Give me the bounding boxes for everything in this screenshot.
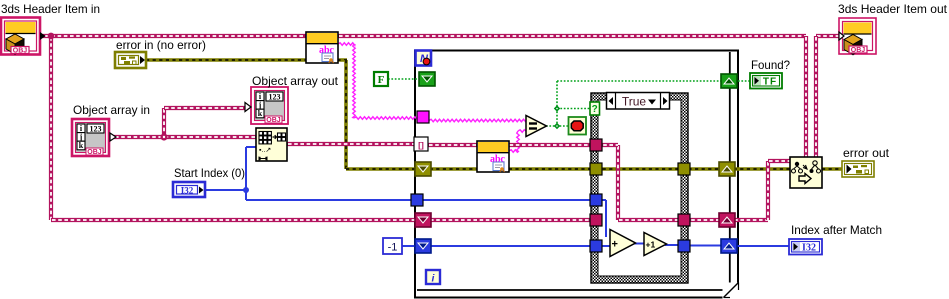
wire: boolean equal output: [546, 125, 569, 127]
svg-text:error out: error out: [843, 146, 890, 160]
3ds Header Item in terminal: [1, 18, 46, 55]
wire: class row inside loop bottom: [429, 218, 596, 222]
case tunnel blue left2: [590, 240, 602, 252]
svg-text:OBJ: OBJ: [13, 48, 28, 55]
case tunnel blue left1: [590, 194, 602, 206]
loop conditional stop terminal: [569, 117, 587, 135]
Object array out terminal: [245, 87, 288, 124]
svg-text:123: 123: [269, 93, 281, 102]
svg-text:Index after Match: Index after Match: [791, 223, 882, 237]
svg-text:error in (no error): error in (no error): [116, 38, 206, 52]
wire: start index: [205, 189, 247, 191]
wire: blue inside loop: [423, 199, 596, 201]
-1 constant: [383, 238, 402, 254]
wire: string from inner abc to equal: [509, 150, 519, 153]
F constant: [374, 72, 388, 86]
svg-text:TF: TF: [763, 77, 777, 88]
case selector terminal: [590, 102, 600, 115]
get class name node U2: [477, 141, 509, 172]
3ds Header Item out terminal: [839, 18, 876, 55]
shift register error left: [415, 162, 431, 176]
svg-text:OBJ: OBJ: [87, 149, 102, 156]
svg-text:OBJ: OBJ: [266, 117, 281, 124]
wire: index after match: [685, 245, 730, 247]
case tunnel class left2: [590, 214, 602, 226]
svg-text:▪..↗: ▪..↗: [259, 147, 271, 154]
Start Index control: [173, 182, 205, 197]
svg-text:+1: +1: [646, 240, 656, 250]
shift register blue left: [415, 239, 431, 253]
wire: array subset out to loop: [287, 142, 418, 146]
svg-text:Object array out: Object array out: [252, 74, 339, 88]
error in terminal: [115, 52, 146, 68]
case tunnel class top-left: [590, 139, 602, 151]
case tunnel blue right: [678, 240, 690, 252]
case structure: [591, 93, 688, 284]
get class name node U1: [306, 32, 338, 63]
Found? indicator: [750, 73, 782, 89]
shift register blue right: [721, 239, 737, 253]
svg-text:I32: I32: [181, 186, 194, 196]
wire: error right of loop: [727, 167, 806, 171]
wire: blue inside case: [605, 200, 607, 237]
shift register boolean left: [419, 72, 435, 86]
wire: string inside loop: [429, 119, 526, 122]
wire: string from class name node: [338, 43, 355, 46]
N count terminal: [416, 51, 432, 66]
svg-text:Start Index (0): Start Index (0): [174, 166, 245, 180]
svg-text:True: True: [622, 95, 647, 109]
svg-text:k: k: [79, 141, 84, 150]
case tunnel class right: [678, 214, 690, 226]
wire: class left drop: [49, 36, 53, 220]
wire: class inside case: [616, 145, 620, 220]
shift register class left: [415, 213, 431, 227]
iteration terminal: [426, 270, 440, 285]
wire: -1 to shift register: [402, 245, 418, 247]
svg-text:123: 123: [90, 125, 102, 134]
equal? node: [526, 116, 547, 137]
svg-text:-1: -1: [388, 242, 398, 254]
blue tunnel loop left: [411, 194, 423, 206]
case tunnel error right: [678, 163, 690, 175]
svg-text:Found?: Found?: [751, 58, 790, 72]
shift register class right: [719, 213, 735, 227]
svg-text:3ds Header Item in: 3ds Header Item in: [1, 2, 100, 16]
svg-text:OBJ: OBJ: [851, 47, 866, 54]
shift register error right: [719, 162, 735, 176]
wire: error in row: [146, 58, 347, 62]
svg-text:[]: []: [418, 140, 424, 150]
wire: error inside loop to case: [423, 167, 596, 171]
svg-text:3ds Header Item out: 3ds Header Item out: [838, 2, 948, 16]
wire: object array in row: [114, 135, 256, 139]
svg-text:+: +: [612, 239, 618, 251]
shift register boolean right: [721, 74, 737, 88]
string tunnel: [417, 111, 429, 123]
case tunnel error left: [590, 163, 602, 175]
array subset node: [256, 128, 287, 161]
increment node: [644, 233, 667, 256]
svg-text:?: ?: [592, 104, 598, 115]
svg-text:Object array in: Object array in: [73, 103, 150, 117]
for loop: [415, 51, 739, 299]
auto-index tunnel: [414, 137, 428, 151]
svg-text:F: F: [378, 74, 385, 86]
svg-text:I32: I32: [802, 243, 816, 254]
preserve run-time class node: [790, 157, 822, 188]
wire: class main top row: [38, 34, 306, 38]
wire: boolean F to shift register: [388, 78, 421, 80]
Object array in terminal: [72, 119, 116, 156]
add node: [610, 230, 636, 257]
Index after Match indicator: [789, 239, 822, 255]
error out terminal: [842, 161, 874, 177]
wire: class element inside loop: [428, 143, 596, 147]
wire: class right of loop: [684, 218, 727, 222]
svg-text:k: k: [258, 109, 263, 118]
